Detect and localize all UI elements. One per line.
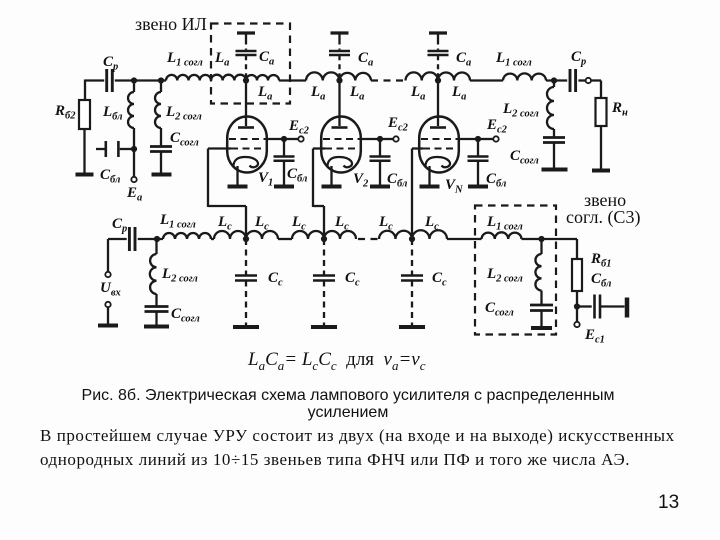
svg-text:Lа: Lа bbox=[451, 84, 466, 103]
svg-text:Eс2: Eс2 bbox=[288, 118, 310, 137]
svg-text:Cбл: Cбл bbox=[387, 171, 408, 190]
svg-text:Eа: Eа bbox=[126, 185, 142, 204]
svg-text:Cбл: Cбл bbox=[591, 271, 612, 290]
svg-text:Lа: Lа bbox=[349, 84, 364, 103]
svg-text:Lс: Lс bbox=[254, 214, 269, 233]
svg-text:Cа: Cа bbox=[456, 50, 471, 69]
svg-text:Cа: Cа bbox=[259, 49, 274, 68]
svg-text:L2 согл: L2 согл bbox=[486, 266, 523, 285]
svg-text:Lс: Lс bbox=[217, 214, 232, 233]
svg-text:Cсогл: Cсогл bbox=[171, 306, 200, 325]
svg-text:Eс2: Eс2 bbox=[387, 115, 409, 134]
svg-text:L1 согл: L1 согл bbox=[166, 50, 203, 69]
svg-text:L2 согл: L2 согл bbox=[161, 266, 198, 285]
svg-text:Lа: Lа bbox=[410, 84, 425, 103]
svg-text:согл. (С3): согл. (С3) bbox=[566, 207, 640, 228]
svg-text:Lа: Lа bbox=[310, 84, 325, 103]
svg-text:Cбл: Cбл bbox=[287, 166, 308, 185]
svg-text:Lс: Lс bbox=[334, 214, 349, 233]
svg-text:Cсогл: Cсогл bbox=[510, 148, 539, 167]
svg-text:звено ИЛ: звено ИЛ bbox=[135, 14, 207, 34]
svg-text:Lбл: Lбл bbox=[102, 104, 123, 123]
svg-text:Cсогл: Cсогл bbox=[170, 130, 199, 149]
svg-text:Cp: Cp bbox=[103, 54, 118, 73]
svg-text:Rб1: Rб1 bbox=[590, 251, 612, 270]
svg-text:Eс2: Eс2 bbox=[486, 117, 508, 136]
svg-text:Uвх: Uвх bbox=[100, 280, 121, 299]
svg-text:Lа: Lа bbox=[257, 84, 272, 103]
svg-text:Cс: Cс bbox=[268, 270, 283, 289]
svg-text:Cс: Cс bbox=[432, 270, 447, 289]
svg-text:Cс: Cс bbox=[345, 270, 360, 289]
svg-text:L2 согл: L2 согл bbox=[502, 101, 539, 120]
svg-text:Cбл: Cбл bbox=[486, 171, 507, 190]
svg-text:Lс: Lс bbox=[291, 214, 306, 233]
svg-text:V1: V1 bbox=[258, 170, 273, 189]
svg-text:Cp: Cp bbox=[112, 216, 127, 235]
svg-text:Cа: Cа bbox=[358, 50, 373, 69]
svg-text:L1 согл: L1 согл bbox=[495, 50, 532, 69]
svg-text:Rн: Rн bbox=[611, 100, 628, 119]
svg-text:L1 согл: L1 согл bbox=[486, 214, 523, 233]
svg-text:Rб2: Rб2 bbox=[54, 103, 76, 122]
svg-text:Cp: Cp bbox=[571, 49, 586, 68]
svg-text:Eс1: Eс1 bbox=[584, 327, 605, 346]
svg-text:Cбл: Cбл bbox=[100, 167, 121, 186]
svg-text:Lа: Lа bbox=[214, 50, 229, 69]
svg-text:L1 согл: L1 согл bbox=[159, 212, 196, 231]
svg-text:Lс: Lс bbox=[378, 214, 393, 233]
svg-text:L2 согл: L2 согл bbox=[165, 104, 202, 123]
svg-text:Lс: Lс bbox=[424, 214, 439, 233]
svg-text:VN: VN bbox=[445, 177, 463, 196]
svg-text:V2: V2 bbox=[353, 171, 369, 190]
svg-text:Cсогл: Cсогл bbox=[485, 300, 514, 319]
